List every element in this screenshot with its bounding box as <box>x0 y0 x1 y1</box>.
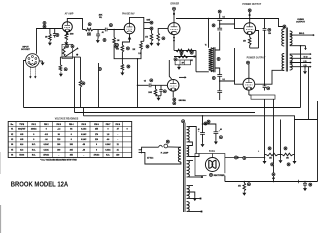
secondary tap common <box>290 66 310 68</box>
svg-text:96: 96 <box>58 134 60 136</box>
rectifier label <box>207 173 229 176</box>
svg-text:6L6: 6L6 <box>20 149 23 151</box>
svg-text:6.3AC: 6.3AC <box>44 148 50 151</box>
wire chain to V4 grid <box>220 24 244 29</box>
junction dots bottom right <box>244 181 246 183</box>
svg-text:118: 118 <box>57 139 60 141</box>
wire rectifier box to bottom wire <box>224 176 226 182</box>
wire rect filament leads <box>188 154 199 157</box>
wire into V5 top <box>248 64 250 78</box>
secondary tap 4 ohm <box>290 62 310 64</box>
ground below divider node 2 <box>280 155 282 159</box>
wire R8 bottom to centre drop <box>138 50 142 59</box>
terminals on volume box <box>66 45 69 48</box>
wire R4 bottom jog to centre drop <box>114 44 137 58</box>
svg-text:N.C.: N.C. <box>32 144 36 146</box>
wire V4 V5 cathode tie <box>250 47 259 49</box>
capacitor C10 bottom right <box>304 182 306 184</box>
wire socket left lead down to bus 1 <box>24 61 26 108</box>
heater leads dashed below socket <box>29 67 31 76</box>
svg-text:.05: .05 <box>102 32 104 34</box>
svg-text:1500: 1500 <box>70 33 74 35</box>
resistor R2 V1 cathode <box>65 32 67 33</box>
resistor R1 grid leak <box>49 29 51 35</box>
resistor R5 to ground <box>59 65 62 72</box>
terminal at R10 <box>163 90 166 93</box>
T3 HV secondary winding <box>187 127 190 143</box>
ground below R11 <box>156 42 160 47</box>
fuse bump <box>159 145 163 147</box>
wire B+ feed to divider <box>225 157 265 159</box>
triode V1 AF amplifier <box>62 22 72 32</box>
terminal above lamp <box>166 140 169 143</box>
svg-text:P. LAMP: P. LAMP <box>161 151 169 154</box>
V3 cathode with pin blobs <box>173 35 175 51</box>
svg-text:360: 360 <box>57 144 60 146</box>
svg-text:265: 265 <box>70 149 73 151</box>
wire heater w2 centre tap ground <box>188 192 194 197</box>
svg-text:6.3AC: 6.3AC <box>105 148 111 151</box>
resistor R11 V3 grid <box>158 29 168 33</box>
T2 secondary windings <box>290 31 292 45</box>
svg-text:21: 21 <box>117 149 119 151</box>
ground below divider node 1 <box>264 155 266 160</box>
svg-text:6SQ7GT: 6SQ7GT <box>18 129 26 131</box>
svg-text:0.5: 0.5 <box>144 81 146 83</box>
wire branch to C4 <box>138 84 149 86</box>
svg-text:POWER OUTPUT: POWER OUTPUT <box>242 4 261 6</box>
AC wire to T3 primary <box>168 146 181 148</box>
wire into V4 top <box>249 12 251 23</box>
svg-text:PIN 6: PIN 6 <box>94 124 99 126</box>
T3 heater winding 3 <box>187 202 190 212</box>
bias wire 2 <box>174 56 196 58</box>
svg-text:PIN 3: PIN 3 <box>56 124 61 126</box>
terminal pair right of T3 top <box>204 122 207 125</box>
filter capacitor C11 <box>200 132 205 134</box>
terminal pair below V6 <box>173 98 176 101</box>
svg-text:PIN 1: PIN 1 <box>31 124 36 126</box>
svg-text:* D.C. VOLTAGES MEASURED WITH: * D.C. VOLTAGES MEASURED WITH VTVM <box>40 158 77 161</box>
svg-text:V1: V1 <box>11 129 13 131</box>
wire HV to rectifier plate 1 <box>188 127 196 154</box>
secondary tap feedback <box>290 45 306 47</box>
svg-text:V6: V6 <box>11 155 13 157</box>
wire bus 1 <box>24 107 301 109</box>
T2 core <box>285 28 287 72</box>
ground below R7 <box>120 71 124 76</box>
wiper blob <box>76 54 78 56</box>
svg-text:6.3AC: 6.3AC <box>105 143 111 146</box>
terminal right of R18 <box>247 183 250 186</box>
scan artifact left edge <box>0 205 1 233</box>
svg-text:PIN 5: PIN 5 <box>81 124 86 126</box>
wire vertical heater drop <box>98 63 100 108</box>
svg-text:370AC: 370AC <box>94 154 100 157</box>
resistor R12 bias <box>176 49 184 52</box>
terminal on heater drop <box>98 68 101 71</box>
svg-text:POWER OUTPUT: POWER OUTPUT <box>247 57 266 59</box>
resistor R14 on bias wire 2 <box>178 55 188 58</box>
svg-text:6L6: 6L6 <box>20 144 23 146</box>
square on bias wire 2 <box>194 56 196 58</box>
wire V5 cathode to cathode box <box>248 90 250 95</box>
wire T1 top to B+ rail <box>208 19 210 48</box>
terminal at bias wire 2 <box>174 58 177 61</box>
svg-text:RECTIFIER: RECTIFIER <box>214 175 225 177</box>
svg-text:0: 0 <box>71 139 72 141</box>
capacitor C5 <box>217 18 222 20</box>
resistor R10 V6 grid return <box>155 85 157 89</box>
resistor R18 bleeder <box>243 182 245 184</box>
svg-text:6.3AC: 6.3AC <box>81 138 87 141</box>
terminal at R5b <box>82 82 85 85</box>
ground below divider node 3 <box>294 155 296 160</box>
capacitor C6 <box>217 27 222 29</box>
capacitor C9 below V5 plate wire <box>264 84 266 86</box>
svg-text:PIN 8: PIN 8 <box>115 124 120 126</box>
feedback box above V6 <box>175 60 190 65</box>
svg-text:360: 360 <box>57 149 60 151</box>
terminal at R11 <box>162 37 165 40</box>
wire bias junction down to T1 return <box>195 50 197 71</box>
wire C4 to V6 grid <box>151 84 168 86</box>
terminal at C1 <box>56 34 59 37</box>
terminal right of C10 <box>309 183 312 186</box>
svg-text:-8.5: -8.5 <box>45 134 48 136</box>
pentode V4 power output upper <box>244 23 256 35</box>
wire V6 cathode to terminals <box>172 91 174 97</box>
wire T1 secondary top <box>215 48 220 50</box>
wire heater w1 bottom lead <box>188 176 201 178</box>
T3 heater winding 2 <box>187 186 190 199</box>
capacitor chain V4 plate to V5 plate <box>264 19 266 29</box>
svg-text:6J5: 6J5 <box>20 134 23 136</box>
wire volume bottom rail <box>60 56 80 58</box>
wire right edge vertical <box>317 101 319 182</box>
svg-text:0: 0 <box>71 134 72 136</box>
wire coupling rail <box>83 29 86 31</box>
feedback wire down to bus 1 <box>300 46 302 108</box>
terminal at R5 <box>64 68 67 71</box>
svg-text:0: 0 <box>46 129 47 131</box>
wire divider drop 2 <box>280 120 282 155</box>
wire T2 primary bottom lead <box>282 69 284 71</box>
T3 rectifier filament winding <box>187 146 189 157</box>
B+ top rail wire <box>176 19 283 27</box>
terminal right of plate cap <box>268 28 271 31</box>
terminal left of C6 <box>212 24 215 27</box>
grid chain lower wire <box>219 72 221 75</box>
wire heater w1 top lead <box>188 160 193 162</box>
wire bus 2 <box>75 112 256 114</box>
wire T1 bottom to bias network <box>196 71 209 73</box>
terminals above divider <box>268 147 271 150</box>
wire V2 outputs to terminals <box>144 22 150 24</box>
wire V1 plate up and over to coupling rail <box>67 19 82 30</box>
tick left of C10 <box>298 180 300 183</box>
terminals at divider grounds <box>271 163 274 166</box>
svg-text:PIN 7: PIN 7 <box>106 124 111 126</box>
input socket J1 <box>26 54 40 68</box>
resistor R9 right of V2 box <box>151 30 153 33</box>
svg-text:T1: T1 <box>205 45 207 47</box>
ground below C2 <box>96 39 100 44</box>
wire speaker common return <box>308 67 310 120</box>
svg-text:0.1: 0.1 <box>223 17 225 19</box>
capacitor C7 <box>217 74 222 76</box>
triode V3 driver <box>168 23 180 35</box>
terminal left of C7 <box>212 77 215 80</box>
driver transformer T1 winding <box>209 48 213 72</box>
svg-text:V3: V3 <box>11 139 13 141</box>
wire V2 plate loop box <box>130 17 144 41</box>
wire centre drop to bus 1 with C4 branch <box>137 59 139 108</box>
terminal above C5 <box>218 10 221 13</box>
terminal left of R6 <box>116 44 119 47</box>
secondary tap 16 ohm <box>290 53 310 55</box>
capacitor C1 bypass <box>54 29 56 34</box>
filter capacitor C12 <box>214 131 219 133</box>
svg-text:170: 170 <box>95 134 98 136</box>
svg-text:0: 0 <box>127 129 128 131</box>
svg-text:OHMS: OHMS <box>297 19 304 21</box>
T3 primary winding <box>178 147 181 162</box>
wire chain box vertical lower <box>234 48 236 81</box>
wire grid rail from socket to V1 grid <box>37 29 62 54</box>
rectifier tube V7 <box>205 158 219 172</box>
terminal on right drop <box>272 173 275 176</box>
svg-text:VOLTAGE READINGS: VOLTAGE READINGS <box>55 118 79 121</box>
ground below R5 <box>59 72 63 77</box>
wire vertical to bus 2 <box>74 57 76 112</box>
svg-text:No.: No. <box>11 124 14 126</box>
svg-text:N.C.: N.C. <box>106 155 110 157</box>
wire bottom right horizontal <box>225 181 318 183</box>
wire V5 plate to output transformer <box>255 70 282 84</box>
svg-text:355: 355 <box>70 155 73 157</box>
driver transformer T1 core <box>213 47 215 72</box>
wire divider row joins <box>265 154 267 156</box>
svg-text:250: 250 <box>243 41 246 43</box>
wire divider drop 3 <box>294 120 296 155</box>
svg-text:47: 47 <box>117 128 119 131</box>
wire box to V6 plate <box>169 60 171 79</box>
svg-text:350: 350 <box>268 33 271 35</box>
svg-text:16 Ω: 16 Ω <box>304 57 308 59</box>
junction dot at R4 tap <box>113 29 115 31</box>
wire V4 cathode down <box>249 45 251 48</box>
volume control box <box>62 44 73 58</box>
T3 heater winding 1 <box>187 161 190 178</box>
svg-text:4.6: 4.6 <box>107 138 110 141</box>
capacitor C2 shunt <box>97 30 99 35</box>
svg-text:5U4G: 5U4G <box>19 154 24 157</box>
svg-text:500 Ω: 500 Ω <box>299 33 305 35</box>
capacitor C3 series on rail <box>104 28 106 32</box>
filter branch wire <box>203 124 216 132</box>
wiper arrow VR1 <box>65 49 77 57</box>
svg-text:210: 210 <box>95 139 98 141</box>
T3 top terminal <box>182 120 185 123</box>
ground below R2 <box>64 41 68 46</box>
svg-text:PIN 2: PIN 2 <box>44 124 49 126</box>
terminal right of T1 <box>217 58 220 61</box>
svg-text:265: 265 <box>70 144 73 146</box>
resistor R4 <box>113 30 115 38</box>
AC line bottom wire <box>142 152 181 164</box>
svg-text:N.C.: N.C. <box>32 155 36 157</box>
svg-text:255: 255 <box>95 129 98 131</box>
wire R6 to R7 <box>121 52 123 64</box>
svg-text:370AC: 370AC <box>43 154 49 157</box>
svg-text:6J5: 6J5 <box>20 139 23 141</box>
terminal above C4 <box>150 79 153 82</box>
secondary tap 500 ohm <box>290 34 313 36</box>
terminal right of C12 <box>219 136 222 139</box>
ground at input socket <box>39 60 42 62</box>
wire wiper feed vertical with resistor R5b <box>80 57 82 80</box>
voltage table grid <box>8 122 132 158</box>
terminal on filter branch <box>207 120 210 123</box>
svg-text:PHASE INV: PHASE INV <box>122 13 135 16</box>
terminals on bias resistors <box>180 51 183 54</box>
svg-text:0: 0 <box>33 134 34 136</box>
pilot lamp circle <box>164 144 168 148</box>
resistor R15 V4 cathode <box>249 35 251 38</box>
wire heater w2 bottom lead <box>188 198 199 200</box>
wire chain box vertical upper <box>234 19 236 25</box>
resistor R3 series on rail <box>85 28 93 31</box>
svg-text:420: 420 <box>116 154 119 157</box>
secondary tap 8 ohm <box>290 57 310 59</box>
svg-text:N.C.: N.C. <box>32 149 36 151</box>
svg-text:0: 0 <box>96 149 97 151</box>
terminal pair on grid rail <box>43 22 46 25</box>
svg-text:6.3AC: 6.3AC <box>81 133 87 136</box>
triode V2 phase inverter <box>124 23 135 34</box>
wire chain to V5 grid <box>220 81 243 84</box>
wire bus 3 <box>84 116 318 120</box>
wire bus1 to bus3 jog <box>83 108 85 116</box>
resistor VR1 in volume box <box>63 46 66 56</box>
resistor R16 divider <box>266 153 278 156</box>
svg-text:6.3AC: 6.3AC <box>44 143 50 146</box>
ground below R18 <box>242 191 246 196</box>
wire cathode box drop right <box>273 99 275 181</box>
ground at secondary common <box>304 67 306 70</box>
terminal right of R7 <box>127 65 130 68</box>
ground below R1 <box>48 41 52 46</box>
cathode box of output stage <box>251 95 275 99</box>
svg-text:350: 350 <box>180 54 183 56</box>
component tick on B+ feed <box>237 157 239 159</box>
svg-text:1.8: 1.8 <box>107 134 110 136</box>
svg-text:TYPE: TYPE <box>19 124 25 126</box>
terminal right of C2 ground <box>103 39 106 42</box>
svg-text:BROOK MODEL 12A: BROOK MODEL 12A <box>11 180 69 189</box>
terminal right of R6 <box>126 47 129 50</box>
terminal below R4 <box>115 45 118 48</box>
terminal on rectifier output <box>235 156 238 159</box>
terminal square above V3 <box>173 13 175 15</box>
wire T1 secondary bottom <box>215 68 220 72</box>
resistor R8 V2 tail <box>141 41 144 42</box>
terminal right of R8 <box>146 45 149 48</box>
svg-text:V2: V2 <box>11 134 13 136</box>
wire heater w3 bottom lead <box>188 211 200 213</box>
svg-text:+: + <box>258 151 259 153</box>
ground below feedback box <box>178 64 180 67</box>
ground below R10 <box>156 95 162 97</box>
terminal above V3 <box>173 7 176 10</box>
AC line top wire <box>142 147 159 150</box>
rectifier box <box>195 154 225 176</box>
arrow at V6 screen <box>179 76 185 78</box>
svg-text:VOL: VOL <box>99 17 102 19</box>
capacitor C4 to V6 grid <box>148 83 150 87</box>
AC plug <box>139 149 142 151</box>
T2 top terminal <box>283 25 286 28</box>
pentode V5 power output lower <box>243 78 255 90</box>
svg-text:6SN7: 6SN7 <box>147 20 151 22</box>
svg-text:SOCKET: SOCKET <box>21 49 30 51</box>
grid chain upper wire <box>219 32 221 48</box>
svg-text:OUTPUT: OUTPUT <box>296 22 306 24</box>
T2 primary windings <box>282 29 284 46</box>
svg-text:NF: NF <box>182 63 184 65</box>
wire heater w2 top lead <box>188 185 193 187</box>
wire HV to rectifier plate 2 <box>188 142 192 146</box>
terminal square above V4 <box>249 14 251 16</box>
resistor R17 divider <box>282 153 293 156</box>
resistor R13 bias <box>186 49 194 52</box>
wire T2 primary top lead <box>283 27 285 29</box>
svg-text:5U4G: 5U4G <box>209 150 215 153</box>
svg-text:0: 0 <box>33 139 34 141</box>
svg-text:-38: -38 <box>82 149 85 151</box>
svg-text:DRIVER: DRIVER <box>170 3 179 5</box>
capacitor C8 <box>217 90 222 92</box>
wire V4 screen tap <box>256 31 259 49</box>
svg-text:-38: -38 <box>82 144 85 146</box>
filter node wire from bus 3 <box>202 116 204 133</box>
bias wire 1 <box>174 49 196 51</box>
resistor R6 below V2 <box>122 34 129 45</box>
svg-text:240AC: 240AC <box>31 128 37 131</box>
svg-text:AF AMP: AF AMP <box>65 13 74 16</box>
terminal above C3 <box>109 24 112 27</box>
resistor R7 <box>121 64 124 71</box>
terminal above V5 <box>247 61 250 64</box>
svg-text:0: 0 <box>107 129 108 131</box>
wire top cap to V3 <box>173 10 175 22</box>
svg-text:21: 21 <box>117 144 119 146</box>
pentode V6 <box>167 80 179 92</box>
svg-text:V5: V5 <box>11 149 13 151</box>
capacitor C4b parallel <box>160 85 162 89</box>
terminal above R3 <box>88 23 91 26</box>
svg-text:6AU6A: 6AU6A <box>179 99 187 102</box>
svg-text:0: 0 <box>96 144 97 146</box>
wire cathode box drop left to divider <box>264 99 266 154</box>
T3 core <box>183 123 185 212</box>
terminal on B+ feed <box>243 157 246 160</box>
terminal right of C9 <box>267 87 270 90</box>
svg-text:6.3AC: 6.3AC <box>81 128 87 131</box>
terminal above V4 <box>248 9 251 12</box>
